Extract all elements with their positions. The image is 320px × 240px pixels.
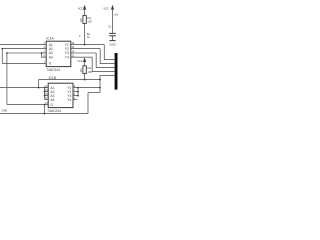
svg-text:100: 100 [80, 68, 83, 73]
wire A3-A4 tie vertical [42, 53, 47, 57]
junction IC1B A3 [44, 95, 46, 97]
wire long line y79 [39, 79, 100, 81]
wire net D2 to IC1A A3 [7, 52, 46, 54]
wire R1 bottom to Y1 net [84, 23, 86, 44]
wire return jog y92 [88, 92, 100, 94]
junction riser long net [99, 79, 101, 81]
svg-text:74AC244: 74AC244 [47, 109, 61, 113]
svg-text:VCC: VCC [78, 7, 84, 11]
svg-text:VCC: VCC [77, 59, 83, 63]
wire R1 top to VCC arrow [84, 9, 86, 16]
wire Y1 descent [104, 45, 114, 60]
svg-text:Y2: Y2 [65, 47, 69, 51]
wire C1 VCC to top plate [112, 9, 114, 33]
svg-text:A2: A2 [49, 47, 53, 51]
power VCC arrow above R2 [77, 57, 86, 63]
wire IC1B Y3 stub [73, 95, 78, 97]
svg-text:A4: A4 [50, 98, 54, 102]
node label mid wire [79, 32, 91, 39]
wire IC1B Y4 stub [73, 99, 77, 101]
wire IC1A Y1 output [71, 44, 105, 46]
wire G1 enable line [2, 62, 46, 64]
junction A3-A4 tie [41, 52, 43, 54]
wire G2 enable line [7, 104, 48, 106]
junction IC1B Y3 [77, 95, 79, 97]
wire net D0 to IC1A A1 [0, 44, 46, 46]
wire sense riser to long line [38, 80, 40, 88]
wire IC1B A2 stub [45, 91, 49, 93]
wire IC1A Y2 output [71, 48, 100, 50]
resistor R2 [80, 66, 92, 74]
svg-text:10n: 10n [114, 14, 119, 17]
svg-text:A4: A4 [49, 55, 53, 59]
capacitor C1 [108, 14, 119, 36]
wire vertical rail V2 A3 to G2 [6, 53, 8, 105]
wire IC1B A3 stub [45, 95, 49, 97]
svg-text:GND: GND [2, 109, 8, 112]
wire net D1 to IC1A A2 [2, 48, 46, 50]
junction A2 rail top [1, 48, 3, 50]
wire Y3 descent [96, 53, 114, 68]
wire C1 bottom plate to GND [112, 36, 114, 41]
wire IC1B A4 stub [45, 99, 49, 101]
power VCC arrow above R1 [78, 5, 86, 11]
wire Y4 descent [92, 57, 114, 71]
svg-text:IC1A: IC1A [46, 37, 54, 41]
pin number labels IC1A left [43, 42, 45, 64]
wire Y2 descent [100, 49, 114, 64]
op-amp IC1A buffer box [46, 41, 71, 66]
svg-text:100: 100 [87, 20, 92, 24]
pin number labels IC1B right [74, 85, 76, 100]
wire IC1B Y1 line to riser [73, 87, 100, 89]
svg-text:Y4: Y4 [65, 55, 69, 59]
svg-text:R2: R2 [87, 66, 91, 70]
junction IC1B A1 [44, 87, 46, 89]
wire connector pin6 riser [100, 76, 115, 93]
wire R2 top to VCC arrow [84, 62, 86, 66]
power VCC arrow above C1 [103, 5, 114, 11]
wire vertical rail V1 A2 to G1 [1, 49, 3, 64]
wire return drop to GND line [87, 93, 89, 114]
svg-text:C1: C1 [108, 25, 112, 29]
junction IC1B Y2 [77, 91, 79, 93]
wire IC1A Y3 output [71, 52, 96, 54]
ground symbol GND [109, 41, 115, 47]
svg-text:100: 100 [87, 70, 92, 74]
wire bottom GND long line [0, 113, 88, 115]
IC1B pin name texts [50, 86, 71, 107]
resistor R1 [80, 16, 92, 24]
pin number labels IC1B left [45, 85, 48, 105]
svg-text:Y4: Y4 [67, 98, 71, 102]
wire IC1B Y2 stub [73, 91, 78, 93]
wire R2 bottom to long line [84, 74, 86, 80]
junction IC1B Y1 [77, 87, 79, 89]
wire G2 drop to GND line [44, 105, 46, 114]
svg-text:G: G [49, 62, 52, 66]
op-amp IC1B buffer box [48, 83, 73, 107]
junction GND line [44, 113, 46, 115]
junction G2 drop [44, 104, 46, 106]
svg-text:G: G [50, 103, 53, 107]
wire net sense to IC1B inputs [0, 87, 48, 89]
junction IC1B A2 [44, 91, 46, 93]
junction A3 rail top [6, 52, 8, 54]
junction R1 on Y1 net [84, 44, 86, 46]
svg-text:74AC244: 74AC244 [46, 68, 60, 72]
wire IC1B outputs tie rail [77, 88, 79, 96]
IC1A pin name texts [49, 43, 69, 66]
svg-text:GND: GND [109, 42, 115, 46]
wire IC1A Y4 output [71, 56, 92, 58]
wire IC1B input tie rail [44, 88, 46, 100]
junction R2 on long net [84, 79, 86, 81]
junction sense riser [38, 87, 40, 89]
svg-text:VCC: VCC [103, 6, 109, 10]
svg-text:R1: R1 [87, 16, 91, 20]
junction riser Y net [99, 87, 101, 89]
pin number labels IC1A right [72, 42, 75, 58]
connector SV1 [115, 53, 118, 90]
svg-text:100: 100 [80, 18, 83, 23]
svg-text:IC1B: IC1B [49, 76, 57, 80]
